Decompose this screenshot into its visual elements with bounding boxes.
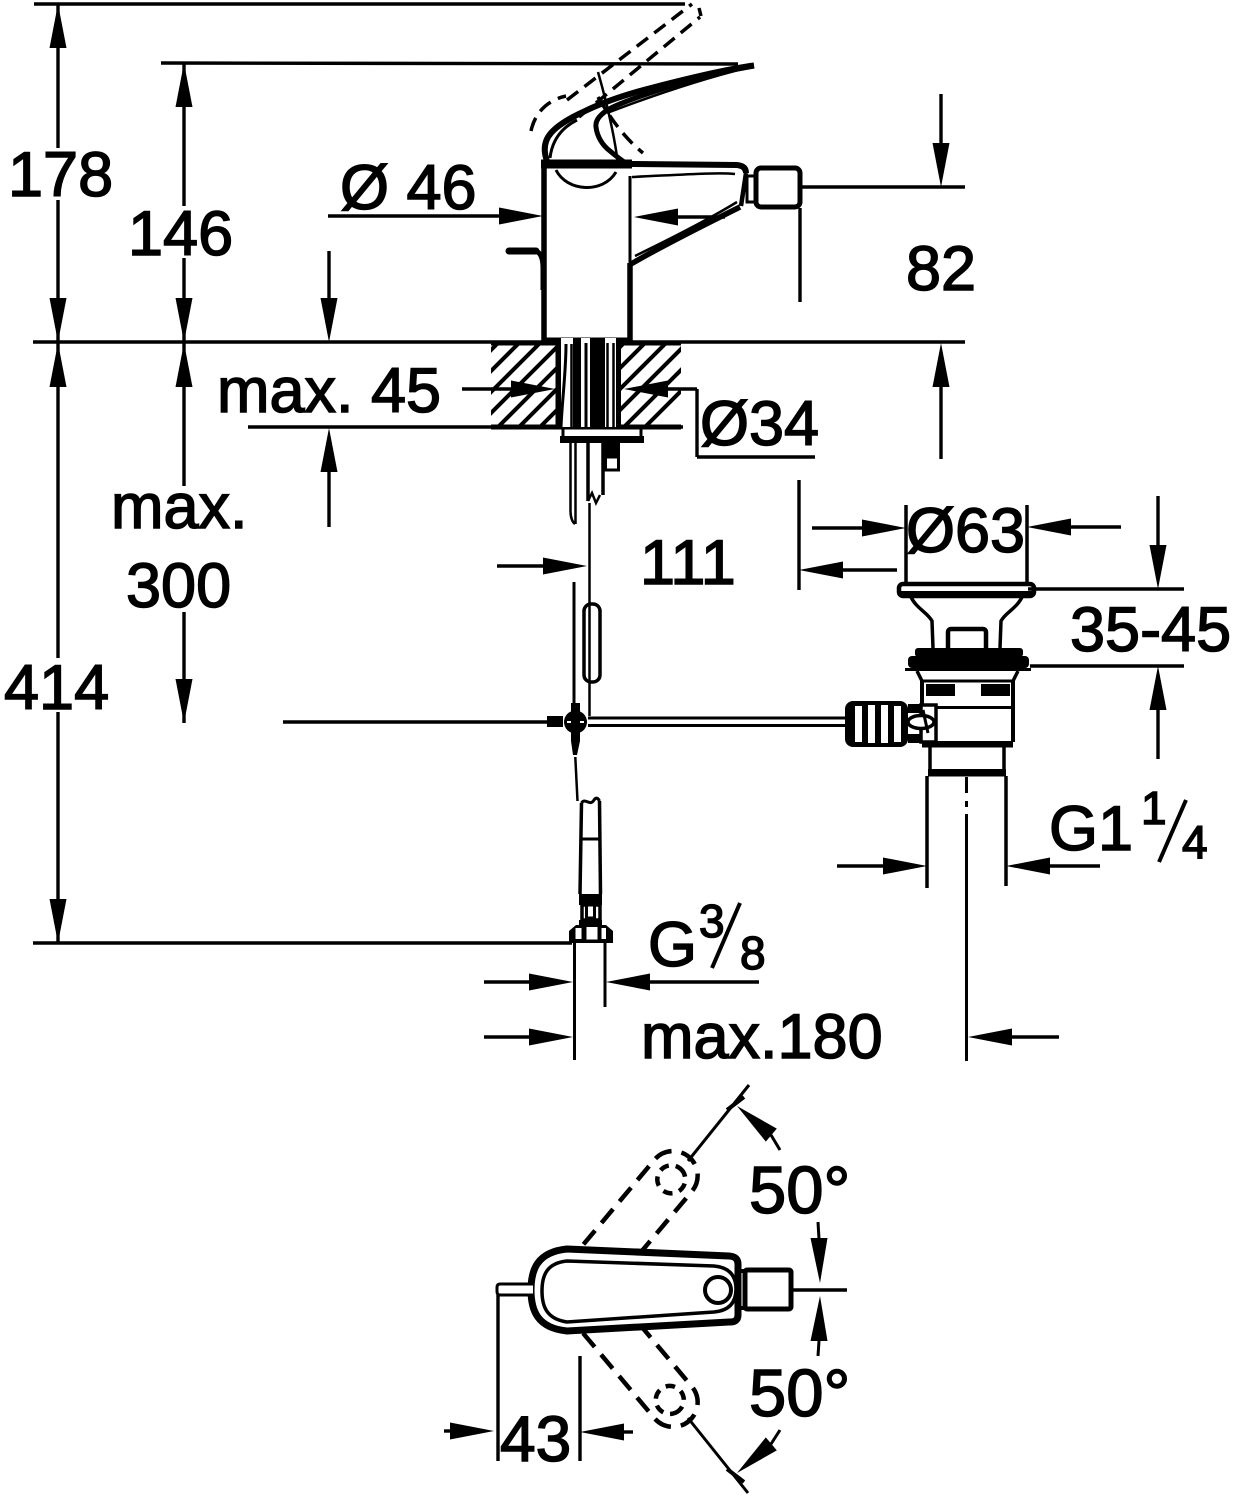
svg-text:50°: 50° (749, 1356, 850, 1431)
svg-text:G: G (648, 910, 697, 980)
svg-text:Ø63: Ø63 (906, 496, 1025, 566)
svg-text:111: 111 (640, 528, 736, 598)
svg-text:35-45: 35-45 (1070, 595, 1231, 665)
svg-text:50°: 50° (749, 1153, 850, 1228)
svg-text:43: 43 (500, 1403, 571, 1475)
svg-text:G1: G1 (1049, 794, 1133, 864)
svg-text:82: 82 (906, 234, 976, 304)
svg-text:1: 1 (1141, 782, 1167, 834)
svg-text:8: 8 (740, 927, 766, 979)
svg-text:Ø 46: Ø 46 (340, 153, 477, 223)
svg-text:178: 178 (8, 140, 113, 210)
svg-text:max. 45: max. 45 (217, 356, 441, 426)
svg-text:300: 300 (126, 551, 231, 621)
svg-text:max.180: max.180 (641, 1002, 883, 1072)
svg-text:414: 414 (4, 653, 109, 723)
svg-text:max.: max. (111, 472, 248, 542)
svg-text:Ø34: Ø34 (700, 389, 819, 459)
svg-text:146: 146 (128, 199, 233, 269)
svg-text:4: 4 (1182, 816, 1208, 868)
svg-text:3: 3 (699, 895, 725, 947)
